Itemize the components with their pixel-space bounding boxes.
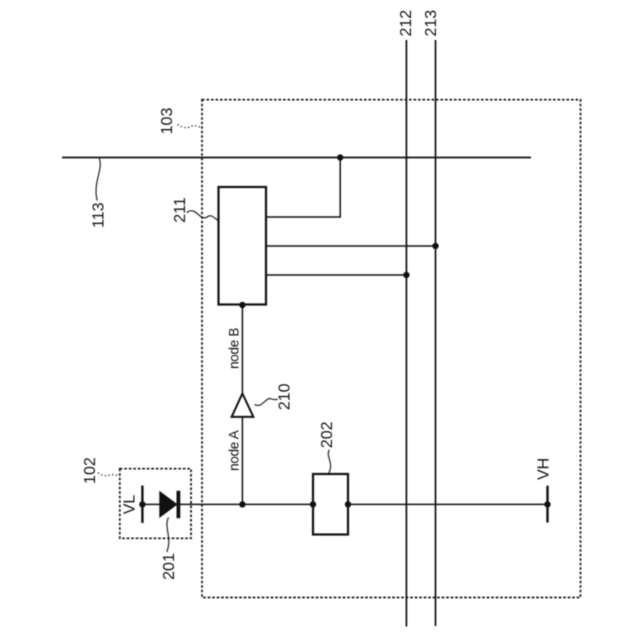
dashed box 102 xyxy=(120,469,191,539)
svg-text:202: 202 xyxy=(319,421,336,448)
wire 212 vertical line xyxy=(405,40,407,627)
junction at VH xyxy=(544,501,550,507)
svg-text:201: 201 xyxy=(161,553,178,580)
svg-text:node A: node A xyxy=(227,430,242,471)
leader 113 xyxy=(96,159,100,201)
svg-text:113: 113 xyxy=(91,202,108,228)
leader 102 dotted xyxy=(98,473,120,476)
svg-text:VH: VH xyxy=(535,458,552,480)
leader 201 xyxy=(167,518,169,553)
resistor 202 xyxy=(313,474,348,535)
junction on 212 xyxy=(403,272,409,278)
junction 202 right xyxy=(345,501,351,507)
junction node A xyxy=(239,501,245,507)
wire 213 vertical line xyxy=(435,40,437,626)
svg-text:node B: node B xyxy=(227,328,242,369)
terminal VL bar xyxy=(141,486,143,524)
block U211 control block xyxy=(219,187,267,305)
wire block211 to line212 xyxy=(266,274,406,276)
wire block211 to line113 xyxy=(266,158,340,217)
wire node A xyxy=(241,417,243,505)
diode 201 xyxy=(160,492,177,517)
wire node B xyxy=(241,305,243,394)
wire block211 to line213 xyxy=(266,245,436,247)
svg-text:210: 210 xyxy=(276,383,293,410)
junction at VL xyxy=(139,501,145,507)
junction on 113 xyxy=(337,154,343,160)
leader 202 xyxy=(328,450,330,474)
svg-text:102: 102 xyxy=(82,457,99,484)
leader 211 xyxy=(187,211,219,221)
wire VL to diode xyxy=(142,503,160,505)
wire 113 horizontal power line xyxy=(62,157,531,159)
leader 210 xyxy=(255,399,278,406)
svg-text:213: 213 xyxy=(423,10,440,37)
svg-text:212: 212 xyxy=(398,10,415,37)
dashed box 103 xyxy=(202,100,581,598)
junction 202 left xyxy=(310,501,316,507)
terminal VH bar xyxy=(546,486,548,523)
wire diode to resistor 202 xyxy=(180,503,313,505)
svg-text:211: 211 xyxy=(172,197,189,223)
junction at block 211 bottom xyxy=(239,302,245,308)
svg-text:103: 103 xyxy=(159,108,176,135)
wire 202 to VH xyxy=(348,503,548,505)
buffer 210 triangle xyxy=(232,394,254,417)
junction on 213 xyxy=(432,243,438,249)
svg-text:VL: VL xyxy=(122,495,139,515)
leader 103 dotted xyxy=(178,125,202,128)
